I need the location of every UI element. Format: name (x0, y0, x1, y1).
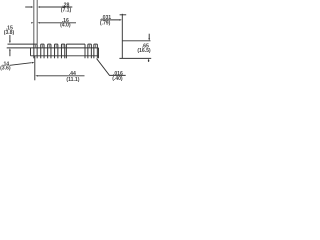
svg-text:(4.0): (4.0) (60, 23, 71, 29)
detail pin bottom bar (119, 57, 151, 59)
dimension .15 (3.8) up-arrow (9, 48, 11, 51)
svg-text:(.40): (.40) (112, 76, 123, 82)
svg-text:(3.8): (3.8) (4, 30, 15, 36)
contact loop 4 (55, 44, 58, 48)
extension line first leg extended down (34, 56, 36, 81)
detail pin mid bar (122, 40, 150, 42)
dimension .16 (4.0) arrows and line (31, 22, 33, 24)
extension line left leg of loop 1 (33, 0, 35, 44)
contact loop 5 (61, 44, 64, 48)
body band top line with left extension (7, 47, 99, 49)
leader line for pin diameter .016 (.40) (97, 59, 126, 76)
raised center block right tick (84, 44, 86, 58)
dimension .031 (.79) line with arrow (100, 19, 119, 21)
svg-text:(7.1): (7.1) (61, 7, 72, 13)
svg-text:(3.6): (3.6) (0, 65, 11, 71)
dimension .65 (16.5) up-arrow (148, 59, 150, 62)
contact loop 3 (48, 44, 51, 48)
raised center block left tick (65, 44, 67, 58)
raised center block top (66, 43, 85, 45)
svg-text:(16.5): (16.5) (137, 48, 151, 54)
dimension .44 (11.1) arrow and line (35, 75, 38, 77)
dimension .15 (3.8) down-arrow (9, 35, 11, 41)
detail pin vertical (121, 14, 123, 59)
body band right edge (98, 48, 100, 58)
body band bottom line (31, 55, 99, 57)
body band left edge (30, 48, 32, 56)
extension line at loop-top level (8, 43, 34, 45)
dimension .28 line right segment (40, 6, 72, 8)
contact loop 6 (88, 44, 92, 48)
contact loop 7 (94, 44, 98, 48)
contact loop 2 (41, 44, 44, 48)
contact loop 1 (34, 44, 37, 48)
extension line right leg of loop 1 (36, 0, 38, 44)
dimension .28 (7.1) left segment and arrows (25, 6, 31, 8)
svg-text:(11.1): (11.1) (66, 77, 79, 83)
dimension .14 (3.6) leader with arrow (10, 63, 32, 66)
detail pin top bar (120, 14, 127, 16)
svg-text:(.79): (.79) (100, 20, 111, 26)
dimension .65 (16.5) down-arrow (148, 34, 150, 39)
